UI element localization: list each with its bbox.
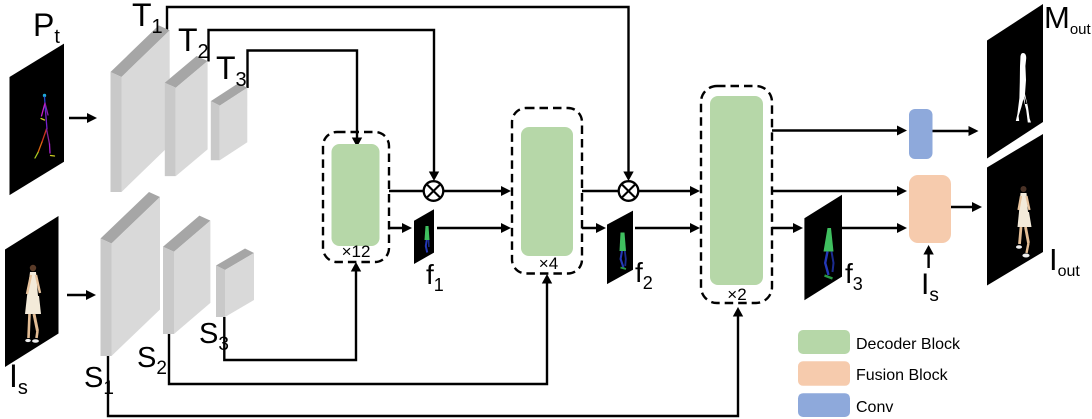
arrowhead T1 into X2	[623, 172, 633, 182]
output image Mout	[987, 4, 1043, 159]
legend decoder swatch	[798, 330, 850, 354]
fusion block	[909, 175, 951, 243]
feature slab S2	[163, 216, 210, 334]
wire S1 to decoder3 bottom	[108, 311, 738, 416]
wire fusion to Iout	[951, 206, 978, 208]
svg-text:×2: ×2	[727, 285, 746, 304]
person figure in Is	[25, 265, 41, 343]
wire T3 to decoder1 top	[248, 51, 358, 144]
wire multiply X1 to decoder2	[444, 190, 507, 192]
multiply node X1	[424, 181, 444, 201]
wire T2 to multiply X1	[209, 30, 435, 178]
wire decoder1 to f1	[389, 227, 408, 229]
svg-text:×12: ×12	[342, 242, 371, 261]
decoder block 2	[521, 127, 573, 256]
wire Is into fusion bottom	[927, 249, 929, 268]
wire f2 to decoder3	[635, 227, 696, 229]
input image Pt	[10, 44, 65, 196]
wire decoder2 to multiply X2	[582, 190, 618, 192]
wire decoder3 to conv	[772, 129, 903, 131]
arrowhead S2 into decoder2	[542, 274, 552, 284]
skeleton figure in Pt	[35, 94, 55, 158]
feature image f3	[804, 195, 842, 301]
wire decoder2 to f2	[582, 227, 602, 229]
feature image f2	[607, 211, 633, 285]
feature slab S3	[216, 249, 254, 318]
feature slab S1	[101, 192, 161, 356]
wire T1 to multiply X2	[167, 7, 629, 178]
arrowhead T3 into decoder1	[352, 138, 362, 148]
legend conv swatch	[798, 393, 850, 417]
arrow Pt to T stack	[69, 117, 93, 119]
svg-text:Fusion Block: Fusion Block	[856, 367, 949, 384]
legend fusion swatch	[798, 361, 850, 386]
wire decoder3 to f3	[772, 227, 799, 229]
arrowhead S3 into decoder1	[351, 262, 361, 272]
svg-text:Decoder Block: Decoder Block	[856, 336, 961, 353]
svg-text:Conv: Conv	[856, 399, 893, 416]
wire f1 to decoder2	[437, 227, 507, 229]
decoder block 1 dashed border	[323, 132, 389, 262]
decoder block 2 dashed border	[512, 108, 582, 274]
decoder block 3	[710, 96, 763, 285]
feature slab T2	[165, 56, 208, 176]
multiply node X2	[619, 181, 639, 201]
decoder block 1	[332, 144, 380, 246]
wire decoder1 to multiply X1	[389, 190, 423, 192]
wire f3 to fusion	[842, 227, 903, 229]
wire S3 to decoder1 bottom	[224, 266, 356, 360]
person figure in Iout	[1016, 186, 1032, 258]
svg-text:×4: ×4	[539, 254, 558, 273]
arrowhead T2 into X1	[429, 172, 439, 182]
wire conv to Mout	[932, 130, 976, 132]
output image Iout	[987, 134, 1043, 286]
conv block	[909, 109, 933, 159]
arrow Is to S stack	[67, 294, 92, 296]
wire S2 to decoder2 bottom	[169, 278, 547, 384]
decoder block 3 dashed border	[701, 86, 772, 303]
feature slab T3	[211, 83, 248, 160]
wire decoder3 to fusion	[772, 190, 903, 192]
arrowhead S1 into decoder3	[733, 307, 743, 317]
feature slab T1	[111, 25, 170, 192]
silhouette in Mout	[1016, 53, 1031, 123]
wire multiply X2 to decoder3	[639, 190, 696, 192]
feature image f1	[414, 209, 434, 264]
input image Is	[5, 216, 59, 367]
